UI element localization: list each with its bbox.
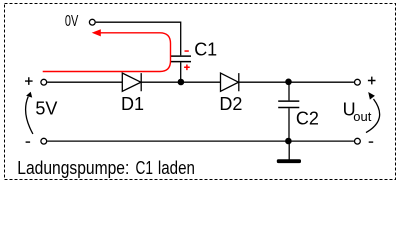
wire D1 to D2	[141, 81, 220, 83]
terminal - right	[355, 138, 361, 144]
wire C1 bottom to node A	[180, 62, 182, 82]
svg-text:Ladungspumpe:: Ladungspumpe:	[17, 158, 129, 178]
svg-text:5V: 5V	[35, 99, 57, 119]
svg-text:C1: C1	[194, 39, 217, 59]
label + left	[25, 77, 33, 85]
node B junction	[285, 79, 292, 86]
wire 0V to C1 top	[96, 22, 181, 55]
node A junction	[178, 79, 185, 86]
label - left	[26, 141, 31, 143]
terminal + right	[355, 79, 361, 85]
terminal - left	[41, 138, 47, 144]
label plus of C1 (red)	[184, 65, 190, 71]
svg-text:laden: laden	[158, 158, 195, 178]
wire D2 to right plus terminal	[239, 81, 354, 83]
diode D2	[221, 73, 239, 91]
svg-text:D1: D1	[121, 94, 144, 114]
source 5V arrow	[26, 97, 33, 134]
node 0V terminal	[89, 19, 95, 25]
label + right	[368, 77, 376, 85]
output arrow Uout	[366, 99, 380, 133]
node C junction	[285, 138, 292, 145]
svg-text:0V: 0V	[65, 13, 79, 30]
svg-text:out: out	[353, 109, 371, 124]
ground	[277, 159, 301, 163]
svg-text:D2: D2	[219, 94, 242, 114]
red arrowhead	[92, 29, 101, 36]
bottom rail wire	[47, 140, 354, 142]
wire to ground	[288, 141, 290, 159]
diode D1	[122, 73, 141, 91]
capacitor C2	[288, 82, 290, 100]
svg-text:C1: C1	[136, 158, 154, 178]
svg-text:C2: C2	[296, 109, 319, 129]
capacitor C1	[171, 56, 191, 62]
terminal + left	[41, 79, 47, 85]
label minus of C1 (red)	[185, 50, 189, 52]
wire left plus to D1	[47, 81, 122, 83]
label - right	[369, 141, 374, 143]
red current flow arrow (charging path)	[43, 33, 171, 72]
